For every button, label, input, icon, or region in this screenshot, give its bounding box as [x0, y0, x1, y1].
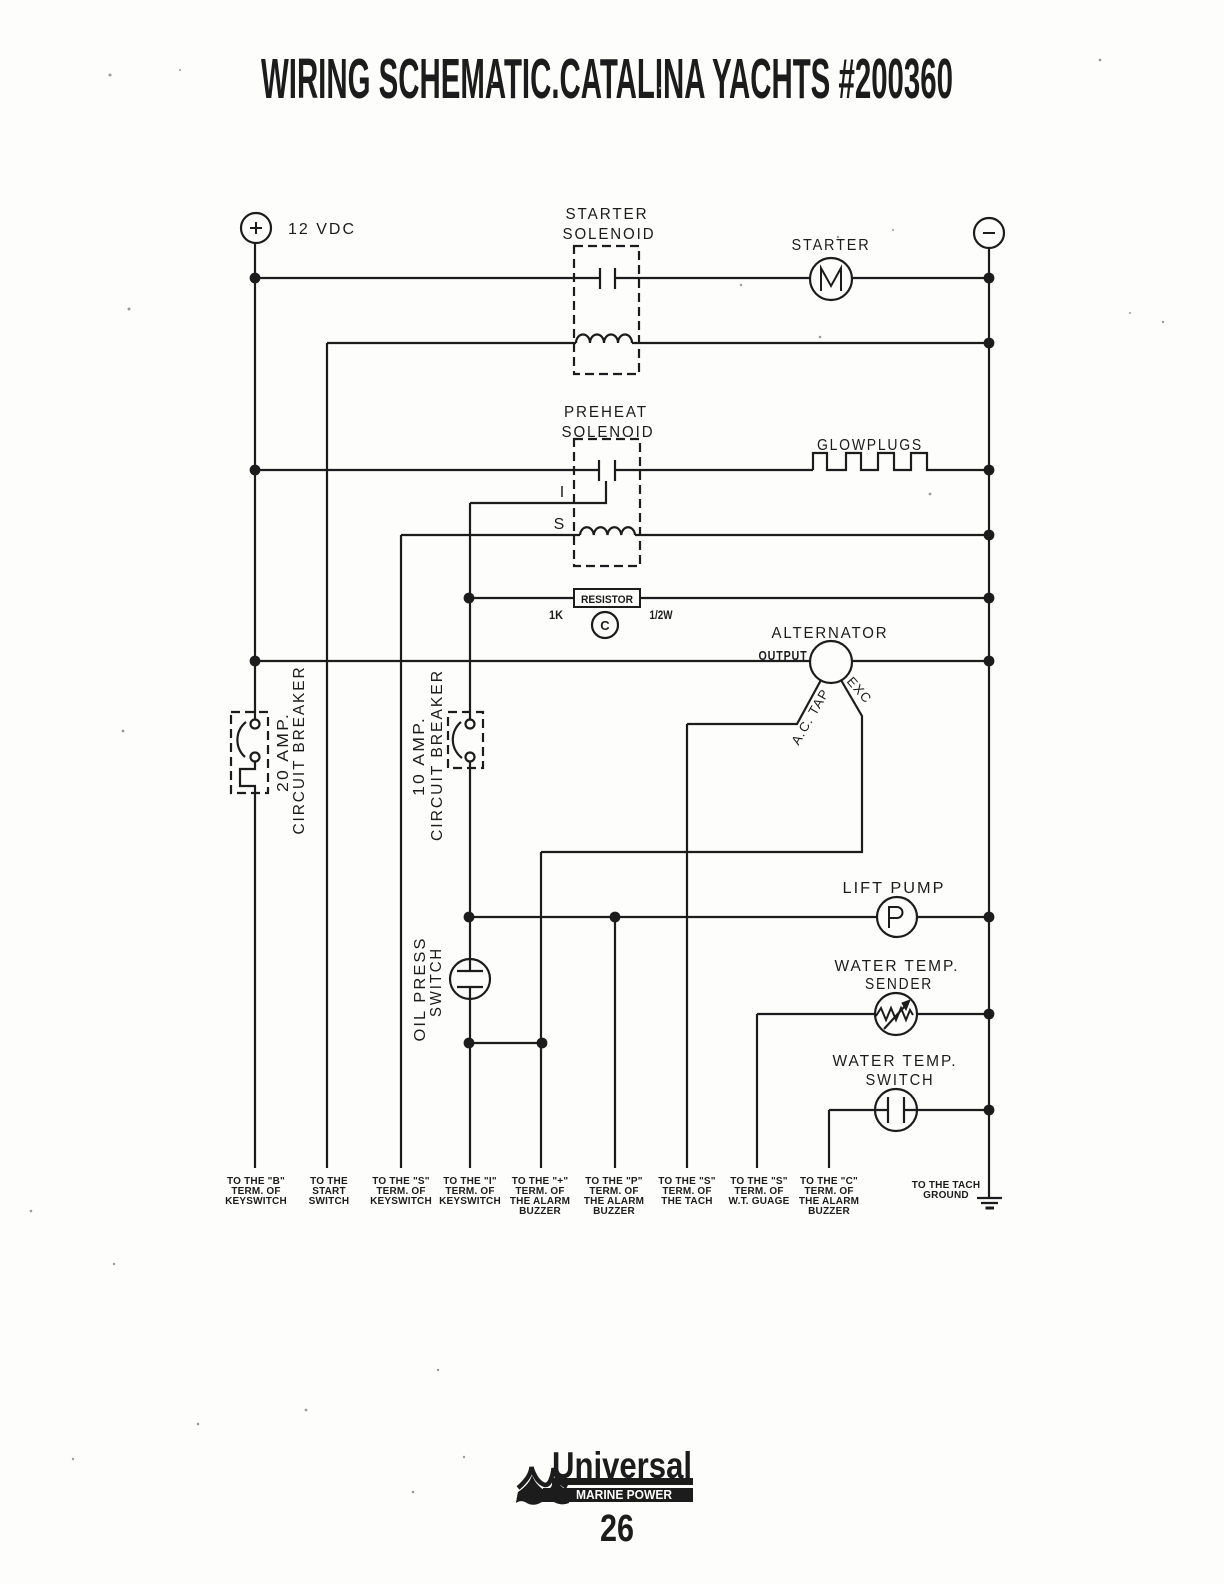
svg-text:STARTER: STARTER	[566, 206, 649, 223]
svg-text:1/2W: 1/2W	[650, 610, 673, 622]
svg-text:I: I	[560, 484, 566, 501]
svg-text:RESISTOR: RESISTOR	[581, 594, 633, 606]
svg-text:SOLENOID: SOLENOID	[563, 226, 656, 243]
svg-text:OIL PRESS: OIL PRESS	[412, 937, 429, 1042]
svg-text:THE TACH: THE TACH	[661, 1196, 712, 1207]
svg-text:EXC: EXC	[844, 674, 875, 706]
svg-text:KEYSWITCH: KEYSWITCH	[439, 1196, 501, 1207]
svg-text:STARTER: STARTER	[792, 237, 871, 254]
svg-text:GROUND: GROUND	[923, 1190, 969, 1201]
svg-text:WATER TEMP.: WATER TEMP.	[833, 1053, 958, 1070]
svg-text:WATER TEMP.: WATER TEMP.	[835, 958, 960, 975]
svg-text:LIFT PUMP: LIFT PUMP	[843, 880, 946, 897]
svg-text:20 AMP.: 20 AMP.	[275, 712, 292, 792]
svg-text:CIRCUIT BREAKER: CIRCUIT BREAKER	[429, 669, 446, 841]
svg-text:Universal: Universal	[552, 1445, 692, 1486]
svg-text:ALTERNATOR: ALTERNATOR	[772, 625, 889, 642]
svg-text:10 AMP.: 10 AMP.	[411, 716, 428, 796]
svg-text:C: C	[600, 618, 610, 633]
svg-text:OUTPUT: OUTPUT	[759, 648, 808, 663]
svg-text:SOLENOID: SOLENOID	[562, 424, 655, 441]
svg-text:SWITCH: SWITCH	[866, 1072, 935, 1089]
svg-text:SENDER: SENDER	[865, 976, 933, 993]
svg-text:BUZZER: BUZZER	[519, 1206, 561, 1217]
svg-text:S: S	[554, 516, 567, 533]
svg-text:KEYSWITCH: KEYSWITCH	[370, 1196, 432, 1207]
svg-text:SWITCH: SWITCH	[428, 947, 445, 1017]
svg-text:BUZZER: BUZZER	[593, 1206, 635, 1217]
svg-text:W.T. GUAGE: W.T. GUAGE	[729, 1196, 790, 1207]
svg-text:A.C. TAP: A.C. TAP	[788, 686, 832, 747]
svg-text:BUZZER: BUZZER	[808, 1206, 850, 1217]
svg-text:26: 26	[600, 1508, 634, 1550]
svg-text:KEYSWITCH: KEYSWITCH	[225, 1196, 287, 1207]
svg-text:12 VDC: 12 VDC	[288, 221, 356, 238]
svg-text:CIRCUIT BREAKER: CIRCUIT BREAKER	[291, 666, 308, 835]
svg-text:MARINE POWER: MARINE POWER	[576, 1488, 672, 1502]
svg-text:SWITCH: SWITCH	[309, 1196, 350, 1207]
svg-text:GLOWPLUGS: GLOWPLUGS	[817, 437, 923, 454]
svg-text:PREHEAT: PREHEAT	[564, 404, 648, 421]
svg-text:WIRING SCHEMATIC.CATALINA YACH: WIRING SCHEMATIC.CATALINA YACHTS #200360	[261, 47, 953, 111]
svg-text:1K: 1K	[549, 610, 564, 622]
